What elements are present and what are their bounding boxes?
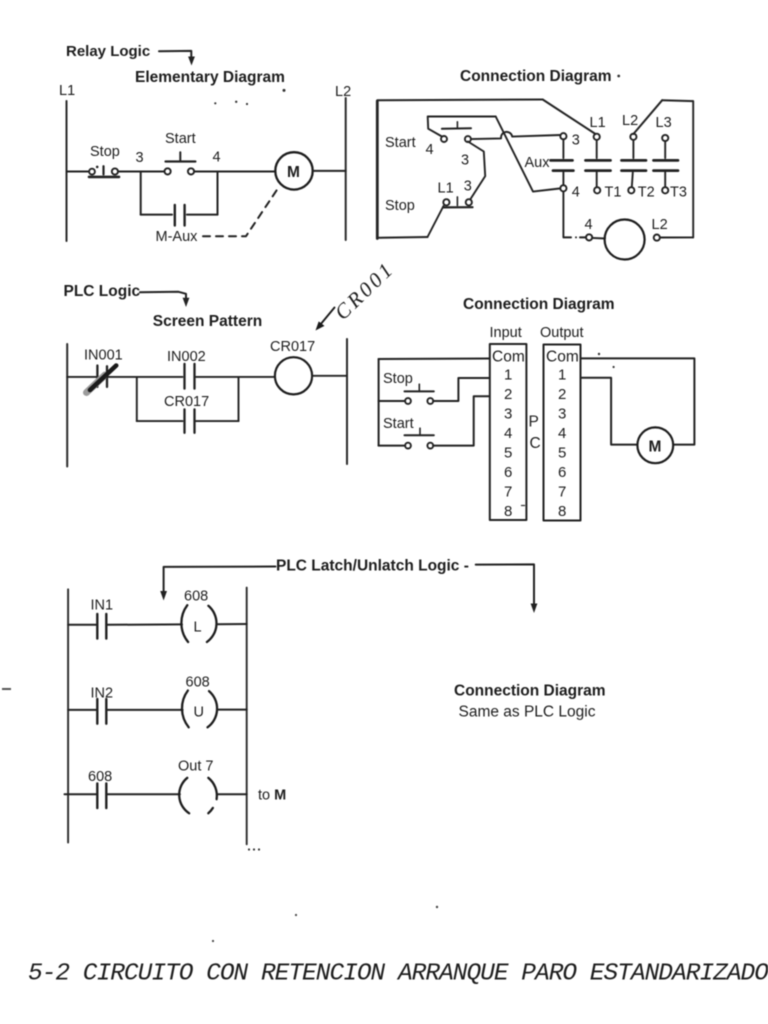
wire output Com to motor right [581, 358, 694, 444]
svg-text:Connection Diagram: Connection Diagram [454, 683, 606, 700]
coil U (unlatch) [182, 691, 217, 728]
speck [617, 75, 620, 78]
svg-text:3: 3 [136, 150, 144, 166]
wire dash-dot to terminal 4 [564, 236, 586, 238]
svg-text:Same as PLC Logic: Same as PLC Logic [459, 704, 596, 721]
svg-text:Screen Pattern: Screen Pattern [153, 313, 262, 330]
svg-text:1: 1 [558, 367, 566, 384]
svg-text:L2: L2 [622, 113, 638, 129]
wire branch bottom (CR017 branch) [137, 420, 239, 422]
svg-text:IN1: IN1 [91, 598, 114, 614]
svg-text:7: 7 [504, 484, 512, 501]
wire stop to input 1 [433, 378, 489, 401]
wire coil U to right rail [217, 709, 247, 711]
arrow from CR001 note to coil [316, 308, 335, 331]
svg-text:T2: T2 [638, 185, 655, 201]
svg-text:5: 5 [504, 445, 512, 462]
wire rail to IN001 [67, 376, 96, 378]
wire rail to start [379, 445, 406, 447]
svg-text:CR017: CR017 [270, 339, 315, 355]
contact IN1 [97, 614, 106, 639]
wire stop L1 to enclosure corner [428, 206, 444, 237]
svg-text:T3: T3 [670, 185, 687, 201]
contact main L2-T2 [622, 134, 647, 194]
wire input Com to rail [379, 358, 490, 361]
terminal block Output [544, 345, 581, 521]
svg-text:608: 608 [186, 675, 210, 691]
coil CR017 [275, 357, 312, 394]
motor M (PLC) [637, 427, 673, 463]
stray specks [214, 89, 285, 105]
wire rail to stop [379, 400, 406, 402]
svg-text:IN2: IN2 [91, 686, 114, 702]
wire branch right vertical [217, 172, 219, 215]
svg-text:3: 3 [461, 153, 469, 169]
wire IN2 to coil U [107, 709, 183, 711]
svg-text:2: 2 [504, 386, 512, 403]
motor (connection diagram) [605, 220, 645, 260]
svg-text:Stop: Stop [90, 144, 120, 160]
arrow right from title [476, 564, 538, 613]
wire coil CR017 to right rail [312, 375, 347, 377]
svg-text:L2: L2 [335, 84, 351, 100]
svg-text:PLC Logic: PLC Logic [64, 283, 141, 300]
svg-text:Connection Diagram: Connection Diagram [463, 296, 615, 313]
svg-text:Elementary Diagram: Elementary Diagram [135, 69, 285, 86]
svg-text:T1: T1 [605, 185, 622, 201]
svg-text:4: 4 [585, 217, 593, 233]
svg-text:CR001: CR001 [330, 256, 399, 324]
svg-text:L3: L3 [656, 115, 672, 131]
wire IN1 to coil L [107, 623, 182, 625]
contact IN2 [97, 699, 106, 724]
svg-text:4: 4 [558, 425, 566, 442]
svg-text:3: 3 [504, 406, 512, 423]
contact Aux [551, 133, 574, 191]
wire rail L1 to Stop [67, 171, 90, 173]
coil Out 7 (dashed) [179, 778, 217, 814]
wire branch left vertical (CR017 branch) [136, 377, 138, 421]
arrow left from title [160, 567, 275, 601]
svg-text:U: U [194, 705, 204, 721]
svg-text:Connection Diagram: Connection Diagram [460, 68, 612, 85]
svg-text:4: 4 [572, 185, 580, 201]
contact IN001 [97, 366, 107, 387]
wire rail to 608 contact [65, 793, 97, 795]
coil L (latch) [181, 605, 216, 642]
pushbutton Stop (PLC) [405, 384, 434, 404]
dashed link M-Aux to coil M [203, 188, 279, 237]
wire rail to IN1 [68, 624, 96, 626]
svg-text:5-2 CIRCUITO CON RETENCION ARR: 5-2 CIRCUITO CON RETENCION ARRANQUE PARO… [28, 961, 768, 988]
svg-text:M: M [649, 439, 662, 456]
svg-text:5: 5 [558, 445, 566, 462]
svg-text:7: 7 [558, 484, 566, 501]
power rail L1 [66, 101, 68, 241]
svg-text:4: 4 [426, 142, 434, 158]
pencil slash over IN001 [87, 366, 117, 393]
svg-text:PLC Latch/Unlatch Logic -: PLC Latch/Unlatch Logic - [276, 558, 469, 575]
svg-text:Output: Output [540, 325, 584, 341]
svg-text:L2: L2 [652, 217, 668, 233]
svg-text:C: C [530, 435, 541, 452]
dots under right rail [248, 848, 260, 850]
svg-text:L1: L1 [590, 115, 606, 131]
wire coil L to right rail [216, 623, 246, 625]
wire output 1 to motor left [581, 378, 638, 445]
right rail (screen pattern) [346, 339, 348, 464]
contact main L1-T1 [586, 134, 611, 194]
wire 608 to coil Out 7 [107, 793, 180, 795]
terminal 4 circle [586, 234, 592, 240]
svg-text:6: 6 [558, 464, 566, 481]
enclosure outline [377, 100, 693, 239]
stray dash left margin [2, 688, 11, 690]
pushbutton Start (PLC) [405, 428, 434, 448]
terminal L2 circle [654, 235, 660, 241]
wire diagonal to Aux 4 [496, 117, 560, 192]
svg-text:Com: Com [546, 349, 579, 366]
wire aux 4 down to motor line [562, 191, 564, 237]
svg-text:Start: Start [385, 135, 416, 151]
wire coil Out 7 to right rail [218, 793, 246, 795]
contact main L3-T3 [654, 135, 679, 194]
wire Start to coil M [194, 171, 275, 173]
wire branch left vertical [140, 172, 142, 215]
contact 608 [97, 783, 106, 808]
svg-text:M-Aux: M-Aux [156, 229, 199, 245]
svg-text:L1: L1 [438, 181, 454, 197]
svg-text:Com: Com [492, 349, 525, 366]
svg-text:3: 3 [558, 406, 566, 423]
svg-text:6: 6 [504, 464, 512, 481]
svg-text:2: 2 [558, 386, 566, 403]
svg-text:Start: Start [383, 416, 414, 432]
wire start 3 to stop 3 zigzag [468, 142, 485, 200]
wire motor L2 to enclosure [660, 236, 693, 238]
svg-text:to M: to M [258, 788, 286, 804]
wire branch bottom [141, 214, 218, 216]
svg-text:8: 8 [504, 503, 512, 520]
svg-text:1: 1 [504, 367, 512, 384]
svg-text:4: 4 [213, 150, 221, 166]
svg-text:P: P [529, 414, 539, 431]
left rail (screen pattern) [66, 344, 68, 467]
pushbutton Start (connection) [441, 122, 471, 142]
stray specks bottom [212, 906, 438, 942]
terminal block Input [490, 344, 527, 520]
svg-text:Aux: Aux [525, 155, 551, 171]
pushbutton Stop (connection) [443, 197, 473, 208]
svg-text:Input: Input [490, 325, 522, 341]
wire coil M to rail L2 [313, 170, 346, 172]
wire rail to IN2 [68, 709, 96, 711]
svg-text:IN001: IN001 [84, 348, 123, 364]
contact IN002 [185, 364, 195, 389]
wire Stop to node 3 [118, 171, 165, 173]
wire outline corner to L1 terminal [543, 100, 596, 135]
svg-text:Start: Start [165, 131, 196, 147]
svg-text:M: M [287, 164, 300, 181]
pushbutton Stop (NC) [89, 166, 119, 177]
svg-text:8: 8 [558, 503, 566, 520]
contact M-Aux [175, 205, 185, 226]
input left rail [378, 359, 380, 446]
svg-text:Out 7: Out 7 [178, 759, 213, 775]
svg-text:Stop: Stop [383, 371, 413, 387]
specks near output wiring [598, 353, 615, 368]
motor coil M [275, 152, 312, 189]
wire start terminal 4 riser [428, 117, 496, 137]
svg-text:3: 3 [464, 179, 472, 195]
wire branch right vertical (CR017 branch) [238, 377, 240, 421]
svg-text:4: 4 [504, 425, 512, 442]
wire IN002 to coil CR017 [196, 376, 275, 378]
svg-text:L: L [194, 620, 202, 636]
arrow from Relay Logic to Elementary Diagram [159, 51, 195, 66]
svg-text:3: 3 [572, 133, 580, 149]
svg-text:Stop: Stop [385, 198, 415, 214]
svg-text:608: 608 [88, 769, 112, 785]
wire start 3 to aux 3 with hop [471, 132, 561, 139]
svg-text:L1: L1 [59, 83, 75, 99]
contact CR017 [185, 409, 195, 432]
wire terminal 4 to motor [592, 237, 605, 240]
svg-text:608: 608 [184, 589, 208, 605]
left rail (latch ladder) [67, 589, 69, 842]
svg-text:IN002: IN002 [167, 349, 206, 365]
svg-text:CR017: CR017 [164, 394, 209, 410]
wire IN001 to IN002 [106, 376, 183, 378]
right rail (latch ladder) [246, 588, 248, 845]
arrow from PLC Logic to Screen Pattern [140, 292, 189, 307]
power rail L2 [345, 98, 347, 240]
wire start to input 2 [433, 396, 489, 445]
pushbutton Start (NO) [165, 152, 196, 174]
svg-text:Relay Logic: Relay Logic [66, 43, 150, 60]
